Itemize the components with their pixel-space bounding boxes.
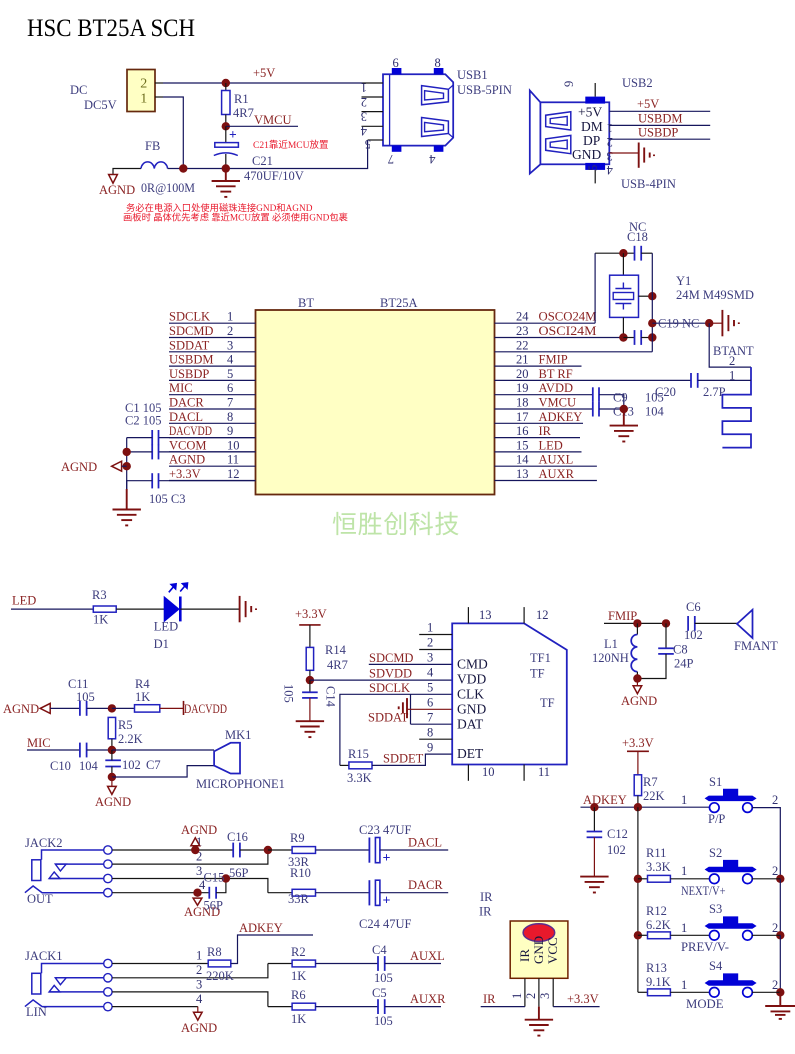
svg-text:MICROPHONE1: MICROPHONE1: [196, 777, 285, 791]
label C4: [372, 943, 387, 957]
svg-text:12: 12: [227, 467, 240, 481]
node FMIP-L1: [633, 619, 641, 627]
net label +5V (USB2): [637, 97, 659, 111]
svg-text:8: 8: [227, 410, 233, 424]
label C2 105: [125, 414, 161, 428]
svg-text:AGND: AGND: [181, 1021, 217, 1035]
label BT: [298, 296, 314, 310]
node S4 right: [776, 988, 784, 996]
net label OSCI24M: [539, 324, 597, 338]
resistor R15: [340, 762, 372, 769]
ground AGND (left arrow port): [61, 460, 127, 474]
svg-text:BT: BT: [298, 296, 314, 310]
wire USB2 +5V: [609, 110, 710, 112]
svg-text:3: 3: [196, 864, 202, 878]
wire SDCLK row: [340, 694, 452, 765]
pin number 19: [516, 381, 529, 395]
wire JACK2 pin2: [112, 850, 268, 865]
label USB1: [457, 68, 488, 82]
node NC tee: [648, 319, 656, 327]
svg-text:AUXL: AUXL: [410, 949, 445, 963]
svg-text:2: 2: [524, 993, 538, 999]
svg-text:+3.3V: +3.3V: [295, 607, 327, 621]
value 1K (R2): [291, 969, 306, 983]
svg-text:SDCMD: SDCMD: [169, 324, 213, 338]
label MK1: [225, 728, 251, 742]
svg-text:7: 7: [427, 711, 433, 725]
svg-text:1: 1: [361, 81, 367, 95]
svg-text:8: 8: [435, 56, 441, 70]
pin number 2 (S1): [772, 793, 778, 807]
net label USBDP: [638, 126, 678, 140]
svg-text:13: 13: [516, 467, 529, 481]
pin 13 (TF top): [468, 607, 491, 623]
svg-text:R6: R6: [291, 988, 306, 1002]
pin number 2 (USB2): [607, 135, 613, 149]
svg-text:DET: DET: [457, 746, 484, 761]
svg-text:R3: R3: [92, 588, 107, 602]
wire +5V (DC pin2 to USB1 pin1): [163, 82, 363, 84]
label R8: [207, 945, 222, 959]
net label VCOM: [169, 438, 207, 452]
svg-text:OSCO24M: OSCO24M: [539, 310, 597, 324]
wire node to R4: [112, 707, 135, 709]
svg-text:5: 5: [586, 165, 600, 171]
wire JACK1 row3 to R6: [268, 1006, 292, 1008]
svg-text:SDDAT: SDDAT: [169, 338, 210, 352]
wire SDCMD row: [369, 663, 452, 665]
node rail-AGND: [123, 462, 131, 470]
wire JACK2 pin1: [112, 835, 233, 850]
label USB-5PIN: [457, 83, 512, 97]
label C10: [50, 759, 71, 773]
label R3: [92, 588, 107, 602]
svg-text:105: 105: [76, 690, 95, 704]
pin pad 6 (USB1 top-left): [392, 56, 402, 74]
wire DC pin1 elbow: [163, 97, 183, 169]
label R11: [646, 846, 666, 860]
value 6.2K (R12): [646, 918, 671, 932]
label C18: [627, 230, 648, 244]
svg-text:MIC: MIC: [169, 381, 193, 395]
node ADKEY-R7: [634, 803, 642, 811]
pin number 4 (USB2): [606, 163, 613, 177]
net label BT RF: [539, 367, 573, 381]
svg-text:4: 4: [427, 666, 434, 680]
svg-text:C11: C11: [68, 677, 88, 691]
capacitor C15: [209, 879, 226, 899]
svg-text:FMIP: FMIP: [539, 353, 568, 367]
wire SDDET: [372, 754, 452, 765]
resistor R7: [634, 775, 641, 807]
svg-text:2: 2: [140, 77, 147, 92]
svg-text:MIC: MIC: [27, 736, 51, 750]
wire LED to ground: [180, 608, 239, 610]
pin number 4: [227, 353, 234, 367]
label C9: [613, 391, 628, 405]
svg-text:S1: S1: [709, 775, 722, 789]
wire S4 right: [752, 991, 780, 993]
label C15: [204, 871, 225, 885]
value 105 (C4): [374, 971, 393, 985]
svg-text:AGND: AGND: [3, 702, 39, 716]
svg-text:AGND: AGND: [99, 183, 135, 197]
label R10: [290, 866, 311, 880]
svg-text:AVDD: AVDD: [539, 381, 574, 395]
svg-text:JACK2: JACK2: [25, 836, 63, 850]
svg-text:DP: DP: [583, 133, 600, 148]
pin number 2 (BTANT): [729, 354, 735, 368]
net label ADKEY (jack): [239, 921, 283, 935]
svg-text:R2: R2: [291, 945, 306, 959]
svg-text:13: 13: [479, 608, 492, 622]
TF inside pin names: [457, 657, 488, 762]
svg-text:22K: 22K: [643, 789, 665, 803]
value 104 (C13): [645, 405, 665, 419]
svg-text:D1: D1: [154, 637, 169, 651]
pin number 11: [227, 453, 239, 467]
wire JACK1 pin2: [112, 963, 268, 978]
node C11-R4-R5: [108, 704, 116, 712]
svg-text:33R: 33R: [288, 892, 310, 906]
svg-text:C7: C7: [146, 758, 161, 772]
label MICROPHONE1: [196, 777, 285, 791]
svg-text:9: 9: [562, 81, 576, 87]
resistor R4: [135, 705, 160, 712]
connector JACK2: [25, 836, 112, 897]
node R14-C14-SDVDD: [306, 676, 314, 684]
label R2: [291, 945, 306, 959]
value 105 (C14, rotated): [282, 684, 296, 703]
node S3 right: [776, 931, 784, 939]
svg-text:LED: LED: [539, 438, 563, 452]
net label SDDET: [383, 752, 424, 766]
pin number 2 (S4): [772, 978, 778, 992]
svg-text:+3.3V: +3.3V: [567, 992, 599, 1006]
designator D1: [154, 637, 169, 651]
pin number 10: [227, 438, 240, 452]
node L1 bottom: [633, 674, 641, 682]
svg-text:1K: 1K: [291, 969, 306, 983]
wire pin 20: [495, 379, 692, 381]
wire pin 23: [495, 337, 624, 339]
svg-text:104: 104: [645, 405, 665, 419]
resistor R12: [638, 932, 710, 939]
pin 11 (TF bottom): [524, 765, 550, 781]
svg-text:GND: GND: [531, 936, 546, 964]
pin number 13: [516, 467, 529, 481]
pin number 1 (S3): [681, 921, 687, 935]
net label SDCLK: [169, 310, 210, 324]
value 470UF/10V: [244, 169, 304, 183]
value 105 (C11): [76, 690, 95, 704]
IR receiver U2: [510, 921, 568, 978]
svg-text:12: 12: [536, 608, 549, 622]
wire JACK2 pin4: [112, 878, 209, 893]
svg-text:R5: R5: [118, 718, 133, 732]
node FMIP-C8: [662, 619, 670, 627]
svg-text:C21靠近MCU放置: C21靠近MCU放置: [253, 139, 328, 151]
capacitor C20: [691, 373, 751, 388]
capacitor C5: [378, 999, 441, 1014]
pin number 1 (S1): [681, 793, 687, 807]
pin number 18: [516, 396, 529, 410]
switch S1: [705, 789, 757, 813]
svg-text:BT RF: BT RF: [539, 367, 573, 381]
svg-text:SDCLK: SDCLK: [169, 310, 210, 324]
svg-text:ADKEY: ADKEY: [239, 921, 283, 935]
label S2: [709, 846, 722, 860]
label LED (D1): [154, 620, 178, 634]
svg-text:R9: R9: [290, 831, 305, 845]
net label IR: [483, 992, 496, 1006]
ground AGND (top-left power port): [99, 175, 135, 198]
capacitor C14: [302, 680, 318, 721]
net label LED: [539, 438, 563, 452]
pin number 23: [516, 324, 529, 338]
wire pin 19: [495, 394, 593, 396]
svg-text:DACR: DACR: [408, 878, 443, 892]
svg-text:+: +: [229, 127, 237, 142]
svg-text:+5V: +5V: [637, 97, 659, 111]
ground (TF GND, rotated left): [399, 698, 407, 718]
pin number 16: [516, 424, 529, 438]
capacitor C8: [637, 623, 673, 678]
svg-text:IR: IR: [479, 905, 492, 919]
pin number 6: [227, 381, 233, 395]
svg-text:6: 6: [427, 696, 433, 710]
wire R9 to C23: [316, 849, 369, 851]
pin pad 9 (USB1 bottom-right): [429, 146, 444, 166]
svg-text:5: 5: [227, 367, 233, 381]
value 3.3K (R15): [347, 771, 372, 785]
watermark 恒胜创科技: [332, 511, 460, 539]
svg-text:R7: R7: [643, 775, 658, 789]
svg-text:AGND: AGND: [169, 453, 205, 467]
net label LED: [12, 594, 36, 608]
svg-text:2: 2: [196, 963, 202, 977]
wire pin 21: [495, 365, 582, 367]
pin number 2: [227, 324, 233, 338]
svg-text:102: 102: [607, 843, 626, 857]
capacitor C23 (polarized): [369, 838, 448, 867]
svg-text:IR: IR: [483, 992, 496, 1006]
label DC: [70, 83, 87, 97]
svg-text:C21: C21: [252, 154, 273, 168]
svg-text:JACK1: JACK1: [25, 949, 63, 963]
node ADKEY-C12: [590, 803, 598, 811]
label IR (upper): [480, 890, 493, 904]
net label USBDM: [169, 353, 213, 367]
net label SDCMD: [169, 324, 213, 338]
label Y1: [676, 274, 691, 288]
switch S3: [705, 916, 757, 940]
resistor R9: [292, 847, 315, 854]
label TF (center): [540, 696, 555, 710]
label C19 NC: [658, 317, 699, 331]
capacitor C6: [688, 616, 737, 631]
net label DACL: [408, 836, 442, 850]
power +3.3V (TF pullup): [295, 607, 327, 647]
net label SDCMD: [369, 651, 413, 665]
wire to R10: [268, 892, 292, 894]
wire AGND to FB: [113, 169, 141, 175]
svg-text:1: 1: [681, 921, 687, 935]
net label SDDAT: [368, 711, 409, 725]
svg-text:105: 105: [645, 391, 664, 405]
label R12: [646, 904, 667, 918]
svg-text:3.3K: 3.3K: [646, 860, 671, 874]
svg-text:Y1: Y1: [676, 274, 691, 288]
svg-text:USBDM: USBDM: [169, 353, 213, 367]
svg-text:1: 1: [140, 92, 147, 107]
wire C7 to microphone: [112, 766, 214, 777]
svg-text:+3.3V: +3.3V: [622, 736, 654, 750]
net label DACVDD: [169, 424, 212, 438]
svg-text:11: 11: [538, 765, 550, 779]
resistor R1: [222, 83, 230, 126]
net label FMIP: [539, 353, 568, 367]
svg-text:C12: C12: [607, 827, 628, 841]
svg-text:TF: TF: [530, 667, 545, 681]
label R5: [118, 718, 133, 732]
ground GND (USB2, rotated): [639, 143, 654, 168]
resistor R8: [208, 960, 231, 967]
ground AGND (below C7): [95, 777, 131, 809]
IR pins 1,2,3: [525, 978, 553, 1006]
capacitor C7: [105, 750, 121, 777]
svg-text:2: 2: [772, 793, 778, 807]
resistor R14: [306, 647, 313, 680]
label FB: [145, 139, 160, 153]
svg-text:C16: C16: [227, 830, 248, 844]
label C23 47UF: [359, 823, 411, 837]
svg-text:R11: R11: [646, 846, 666, 860]
svg-text:TF1: TF1: [530, 651, 551, 665]
node FB junction: [179, 164, 187, 172]
pin number 1: [227, 310, 233, 324]
resistor R13: [638, 989, 710, 996]
pin pad 7 (USB1 bottom-left): [388, 146, 402, 166]
svg-text:6: 6: [227, 381, 233, 395]
value 1K (R3): [93, 613, 108, 627]
svg-text:AUXR: AUXR: [539, 467, 575, 481]
node crystal right: [648, 292, 656, 300]
svg-text:CLK: CLK: [457, 687, 484, 702]
svg-text:DACL: DACL: [408, 836, 442, 850]
svg-text:R8: R8: [207, 945, 222, 959]
pin pad 9 (USB2 top): [562, 81, 605, 104]
label TF1: [530, 651, 551, 665]
svg-text:1: 1: [196, 949, 202, 963]
net label DACL: [169, 410, 203, 424]
svg-text:23: 23: [516, 324, 529, 338]
svg-text:17: 17: [516, 410, 529, 424]
label R1: [234, 92, 249, 106]
net label SDVDD: [369, 667, 412, 681]
svg-text:MODE: MODE: [686, 997, 724, 1011]
svg-text:R10: R10: [290, 866, 311, 880]
label P/P: [708, 812, 725, 826]
svg-text:DM: DM: [581, 119, 603, 134]
label C1 105: [125, 401, 161, 415]
net label MIC: [27, 736, 51, 750]
net label ADKEY: [539, 410, 583, 424]
svg-text:C19 NC: C19 NC: [658, 317, 699, 331]
wire USBDP: [609, 138, 710, 140]
value 2.7P: [703, 385, 726, 399]
net label +3.3V: [169, 467, 201, 481]
wire pin 24: [495, 322, 596, 324]
wire pin 13: [495, 480, 597, 482]
value 56P (C15): [204, 899, 224, 913]
wire R6 to C5: [316, 1006, 379, 1008]
pin number 22: [516, 338, 529, 352]
value 1K (R6): [291, 1012, 306, 1026]
svg-text:LED: LED: [12, 594, 36, 608]
label R14: [325, 643, 347, 657]
capacitor C13: [593, 402, 624, 417]
net label SDCLK: [369, 681, 410, 695]
svg-text:220K: 220K: [206, 969, 234, 983]
svg-text:+: +: [383, 851, 391, 866]
pin number 2 (S2): [772, 864, 778, 878]
ground GND (below IR): [525, 1007, 553, 1036]
value 33R (R9): [288, 855, 310, 869]
svg-text:R13: R13: [646, 961, 667, 975]
wire JACK1 pin4: [112, 992, 203, 1007]
value 4R7 (R14): [327, 658, 348, 672]
svg-text:AGND: AGND: [621, 694, 657, 708]
wire AGND to C11: [50, 707, 80, 709]
svg-text:2: 2: [427, 636, 433, 650]
net label +5V: [253, 66, 275, 80]
svg-text:TF: TF: [540, 696, 555, 710]
node C19 right: [648, 333, 656, 341]
svg-text:FMIP: FMIP: [608, 609, 637, 623]
node VMCU junction: [222, 122, 230, 130]
wire TF GND row: [407, 708, 452, 710]
label 105 C3: [149, 492, 185, 506]
wire R2 to C4: [316, 963, 379, 965]
svg-text:L1: L1: [604, 637, 618, 651]
pin number 14: [516, 453, 529, 467]
pin numbers TF 1-9: [427, 621, 434, 755]
svg-text:DC5V: DC5V: [84, 98, 117, 112]
wire to BT ground: [709, 322, 722, 324]
svg-text:120NH: 120NH: [592, 651, 629, 665]
wire S2 right rail: [752, 879, 780, 936]
note C21 placement (red): [253, 139, 328, 151]
value 102 (C12): [607, 843, 626, 857]
svg-text:S3: S3: [709, 902, 722, 916]
pin number 4 (USB1): [360, 124, 367, 138]
node BTANT tee: [705, 319, 713, 327]
terminal DACVDD: [160, 701, 227, 716]
wire crystal right rail: [651, 253, 653, 352]
capacitor C3: [127, 473, 256, 489]
svg-text:HSC BT25A SCH: HSC BT25A SCH: [27, 15, 195, 42]
svg-text:20: 20: [516, 367, 529, 381]
svg-text:3: 3: [361, 110, 367, 124]
label DC5V: [84, 98, 117, 112]
node +5V junction: [222, 79, 230, 87]
svg-text:2: 2: [361, 95, 367, 109]
value 102 (C6): [684, 628, 703, 642]
svg-text:AUXL: AUXL: [539, 453, 574, 467]
wire pin 12: [169, 480, 256, 482]
crystal Y1: [610, 253, 653, 337]
